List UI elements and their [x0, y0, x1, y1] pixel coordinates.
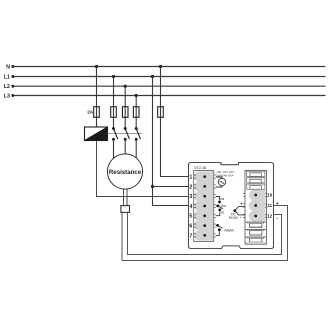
node L3	[4, 94, 15, 100]
right block empty cell 5	[245, 230, 266, 236]
node L1	[4, 75, 15, 81]
wire sensor + lead loop to terminal 11	[122, 206, 288, 261]
svg-text:+: +	[240, 201, 243, 206]
wire pole2 to resistance	[124, 139, 126, 154]
wire sensor - lead loop to terminal 12	[128, 212, 282, 254]
fuse F1 2A	[87, 107, 99, 118]
right block empty cell 2	[247, 178, 265, 183]
right block bottom shading	[246, 242, 266, 244]
wire L3 drop through fuse F4 to contact	[135, 96, 137, 129]
wire L1 down (E) to terminal 4	[153, 77, 189, 206]
svg-text:L2: L2	[4, 84, 10, 90]
contactor linkage	[108, 133, 142, 135]
fuse F5	[158, 107, 164, 118]
junction E branch to terminal 2	[151, 185, 154, 188]
wire SSR output down and right to terminal 3	[97, 141, 189, 197]
left terminal block outline	[194, 171, 214, 242]
contactor pole 1	[112, 127, 118, 141]
node N	[6, 65, 14, 71]
svg-text:6: 6	[189, 224, 192, 230]
left terminal block body	[194, 171, 213, 240]
svg-text:L3: L3	[4, 94, 10, 100]
right block empty cell 3	[247, 184, 265, 189]
wire E branch to terminal 2	[153, 186, 189, 188]
svg-text:na: na	[220, 197, 224, 201]
solid state relay K1	[85, 127, 108, 141]
right block empty cell 4	[245, 222, 266, 228]
temperature sensor probe body	[121, 206, 130, 213]
svg-text:3: 3	[189, 194, 192, 200]
left block tick marks	[194, 175, 216, 237]
AC supply symbol	[216, 177, 226, 187]
wire L2 drop through fuse F3 to contact	[124, 86, 126, 128]
wire N drop through fuse F1 to SSR	[96, 67, 98, 128]
sensor leads from heater	[123, 189, 125, 206]
wire N bus	[13, 66, 326, 68]
right block empty cell 6	[245, 237, 266, 243]
heater: Resistance circle	[107, 154, 142, 189]
wire L3 bus	[13, 95, 326, 97]
svg-text:4: 4	[189, 204, 192, 210]
pin numbers 1-7	[189, 175, 192, 240]
svg-text:7: 7	[189, 233, 192, 239]
output relay contact (na/Out/nc)	[216, 197, 226, 216]
wire N drop through fuse F5 to terminal 1	[161, 67, 189, 177]
svg-text:Resistance: Resistance	[109, 169, 142, 176]
svg-text:2: 2	[189, 184, 192, 190]
right block tick marks	[243, 193, 267, 217]
wire L1 drop through fuse F2 to contact	[113, 77, 115, 129]
wire L1 bus	[13, 76, 326, 78]
svg-text:L1: L1	[4, 75, 10, 81]
wire pole1 to resistance	[113, 139, 115, 158]
wire L2 bus	[13, 85, 326, 87]
svg-text:Pt100: Pt100	[229, 216, 238, 220]
fuse F3	[122, 107, 128, 118]
svg-text:DT2-48: DT2-48	[194, 166, 206, 170]
svg-text:nc: nc	[221, 211, 225, 215]
svg-text:10: 10	[267, 193, 272, 198]
junction N to fuse F1	[95, 65, 98, 68]
contactor pole 2	[124, 127, 130, 141]
svg-text:1: 1	[189, 175, 192, 181]
controller DT2-48 case outline	[189, 163, 274, 249]
junction L2 to fuse F3	[124, 85, 127, 88]
right block empty cell 1	[247, 171, 265, 176]
svg-text:11: 11	[267, 203, 272, 208]
terminal screws right block	[254, 194, 257, 218]
svg-text:2A: 2A	[87, 110, 94, 115]
contactor pole 3	[135, 127, 141, 141]
svg-text:+: +	[276, 201, 279, 207]
right terminal block outline	[245, 170, 267, 244]
T/C Pt100 probe symbol	[229, 201, 245, 220]
junction L3 to fuse F4	[135, 94, 138, 97]
junction L1 to fuse F2	[112, 75, 115, 78]
junction L1 to vertical E	[151, 75, 154, 78]
svg-text:12: 12	[267, 214, 272, 219]
junction N to fuse F5	[159, 65, 162, 68]
svg-text:N: N	[6, 65, 10, 71]
fuse F4	[133, 107, 139, 118]
fuse F2	[111, 107, 117, 118]
alarm relay contact	[216, 224, 235, 235]
wire pole3 to resistance	[135, 139, 137, 158]
right block sensor connector body	[249, 190, 266, 222]
svg-text:Alarm: Alarm	[224, 227, 234, 232]
node L2	[4, 84, 15, 90]
svg-text:Out: Out	[221, 204, 227, 208]
svg-text:5: 5	[189, 214, 192, 220]
pin numbers 10-12	[267, 193, 272, 219]
terminal screws left block	[203, 175, 206, 236]
